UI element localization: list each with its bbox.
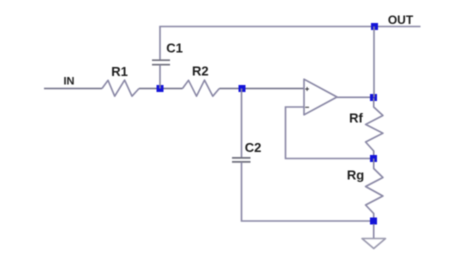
wire R2 to op-amp noninverting input [219,88,304,90]
svg-text:OUT: OUT [388,13,414,27]
wire N2 down to C2 [241,89,243,158]
svg-text:C1: C1 [166,41,183,56]
op-amp U1 [304,79,337,115]
resistor R1 [102,64,139,96]
wire C1 up to top rail [159,27,161,60]
svg-text:R1: R1 [111,64,128,79]
wire R1 to R2 [139,88,183,90]
node N5 junction Rg/C2/ground [370,218,377,225]
svg-text:C2: C2 [245,140,262,155]
wire N1 up to C1 [159,65,161,89]
resistor Rg [347,159,383,222]
svg-text:Rg: Rg [347,168,364,183]
resistor Rf [349,98,383,159]
svg-text:IN: IN [64,76,75,88]
wire IN input segment [44,88,102,90]
svg-text:R2: R2 [192,64,209,79]
wire feedback from inverting input to N4 [286,107,374,159]
node N2 junction R2/C2 [239,85,246,92]
wire N3 up to OUT rail [373,27,375,98]
wire ground stem [373,224,375,239]
capacitor C1 [152,41,183,65]
capacitor C2 [232,140,261,162]
node OUT rail junction [371,23,378,30]
node N4 junction Rf/Rg/feedback [370,155,377,162]
wire op-amp output [337,96,374,98]
node N1 junction R1/R2/C1 [157,85,164,92]
svg-text:Rf: Rf [349,111,363,126]
node N3 output junction [370,94,377,101]
ground [362,239,386,249]
wire top rail [159,26,420,28]
wire C2 down and right to ground node [242,162,374,221]
resistor R2 [183,64,220,97]
